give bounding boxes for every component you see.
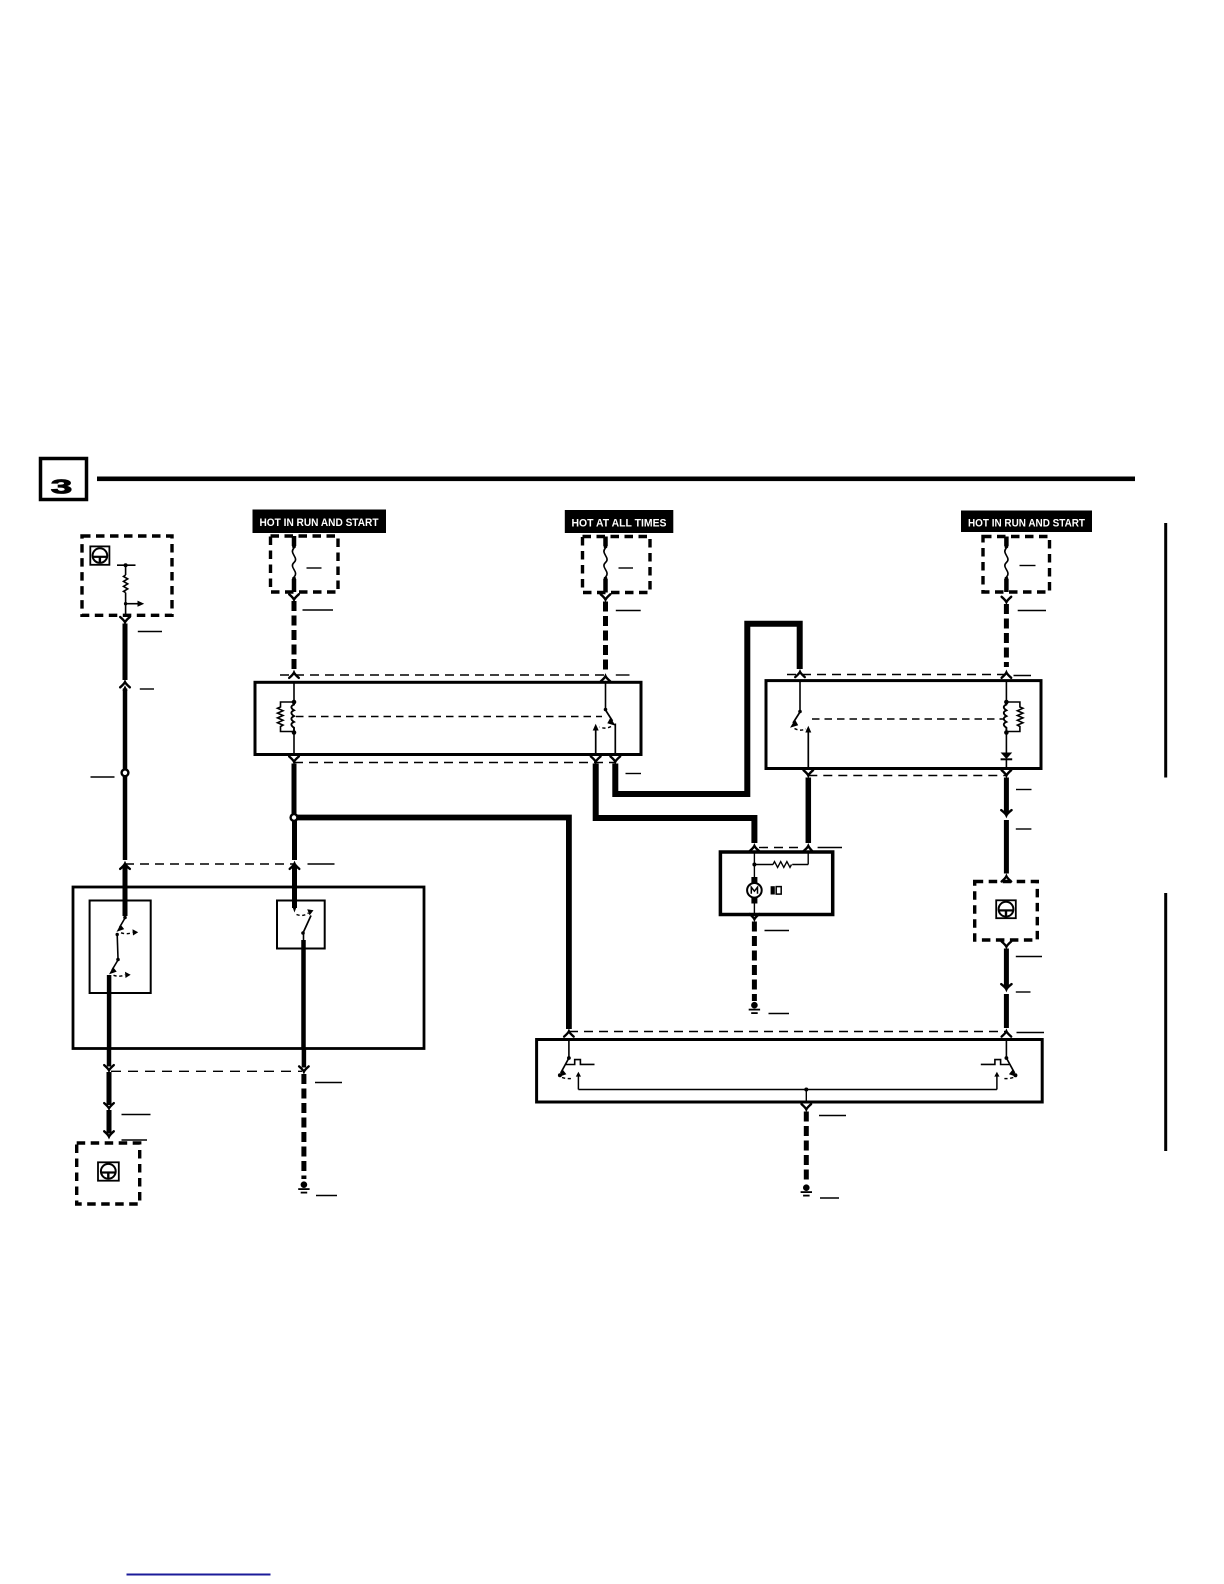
relay K1 coil with parallel resistor <box>278 682 297 754</box>
small switch contact and blade <box>292 907 313 935</box>
wire K2 switch to motor box <box>806 778 812 844</box>
splice label line <box>91 776 115 778</box>
connector K1 switch pin 87a <box>591 757 601 762</box>
boundary label line <box>308 863 335 865</box>
inline connector pair on left column <box>120 682 130 687</box>
wire left column lower <box>123 777 128 861</box>
wire label line below F3 <box>1018 610 1046 612</box>
steering column unit dashed box <box>975 882 1038 941</box>
svg-text:HOT IN RUN AND START: HOT IN RUN AND START <box>968 518 1085 530</box>
wire steering column unit down <box>1004 949 1009 988</box>
connector at big box boundary (right) <box>290 864 300 869</box>
steering wheel icon (washer unit) <box>98 1162 119 1180</box>
relay K1 bottom boundary dashed line <box>294 762 615 764</box>
connector label line <box>140 688 154 690</box>
header label HOT IN RUN AND START (right) <box>961 511 1092 533</box>
connector pair on right column (upper) <box>1001 810 1011 815</box>
relay K2 bottom boundary dashed line <box>808 775 1006 777</box>
wire K2 diode to connector (solid) <box>1004 778 1009 814</box>
column stalk switch box (tall) <box>90 901 151 994</box>
relay K1 internal dashed link <box>296 716 602 718</box>
wire small switch output <box>303 934 305 942</box>
left limit switch <box>558 1040 595 1090</box>
title rule <box>97 477 1135 482</box>
connector below F1 <box>289 594 299 599</box>
splice node ring on left column <box>122 769 129 776</box>
rheostat inside S1 <box>117 563 136 615</box>
wire S1 down (left column upper) <box>123 624 128 681</box>
ground G3 label line <box>820 1197 839 1199</box>
wire F2 to relay K1 switch (dashed) <box>603 602 608 674</box>
wire label line below S1 <box>138 631 162 633</box>
ground G3 (bottom box) <box>801 1184 812 1196</box>
bottom box boundary label line <box>1017 1032 1045 1034</box>
connector pair on right column (lower) <box>1001 984 1011 989</box>
steering wheel icon (right unit) <box>996 900 1016 918</box>
resistor inside motor unit <box>754 852 808 867</box>
K1 bottom boundary label line <box>626 773 642 775</box>
motor unit box <box>720 852 832 915</box>
motor box entry label line <box>818 847 842 849</box>
wire label line below F1 <box>303 609 334 611</box>
diode inside K2 <box>1001 753 1013 769</box>
ground wire label line <box>819 1115 846 1117</box>
K2 top boundary label line <box>1014 675 1032 677</box>
connector below bottom box <box>802 1104 812 1109</box>
connector pair label line <box>1016 991 1031 993</box>
fuse F2 dashed box <box>583 537 651 593</box>
washer pump unit dashed box <box>77 1143 140 1204</box>
wire F1 to relay K1 (dashed) <box>292 601 297 670</box>
connector at big box boundary (left) <box>120 864 130 869</box>
connector at K1 top pin 30 <box>601 676 611 681</box>
right margin bar upper <box>1164 523 1167 778</box>
connector at steering column unit top <box>1002 876 1012 881</box>
K1 top boundary label line <box>616 674 630 676</box>
connector below big box (left pin) <box>104 1065 114 1070</box>
page number box 3 <box>41 459 87 500</box>
wire B: K1 pin87a down to motor box <box>596 764 755 844</box>
connector below F3 <box>1002 597 1012 602</box>
wiper arrow inside S1 <box>124 601 144 607</box>
connector at bottom box right pin <box>1002 1031 1012 1036</box>
motor ground wire label line <box>765 930 790 932</box>
label line below steering column unit <box>1016 956 1042 958</box>
right limit switch <box>981 1040 1018 1090</box>
relay K1 box <box>255 682 641 754</box>
ground G1 (motor) <box>749 1002 760 1014</box>
connector below S1 <box>120 617 130 622</box>
footer link line <box>127 1574 271 1576</box>
connector at K2 top pin 30 <box>795 672 805 677</box>
wire tall switch output <box>107 975 112 1049</box>
wire stub below big box right <box>302 1049 307 1068</box>
pump icon inside motor unit <box>771 886 782 894</box>
relay K2 switch <box>790 681 811 769</box>
svg-text:HOT IN RUN AND START: HOT IN RUN AND START <box>260 517 379 529</box>
relay K2 internal dashed link <box>812 718 1004 720</box>
wire node down to big box <box>292 821 297 861</box>
connector at motor box right pin <box>804 846 813 851</box>
header label HOT AT ALL TIMES (middle) <box>565 510 674 533</box>
wire to ground (dashed) from wiper switch <box>301 1074 306 1179</box>
connector below F2 <box>601 594 611 599</box>
connector at bottom box left pin <box>564 1031 574 1036</box>
bottom box boundary dashed line <box>569 1031 1006 1033</box>
wire stalk switch down <box>107 1072 112 1105</box>
wiper relay switch box (small) <box>277 901 325 949</box>
ground G2 label line <box>316 1195 337 1197</box>
connector label line <box>122 1139 148 1141</box>
wire K1 coil to splice node <box>292 764 297 816</box>
steering wheel icon of S1 <box>90 546 109 564</box>
big box top boundary dashed line <box>125 863 295 865</box>
wire left column mid <box>123 689 128 770</box>
connector at K1 top pin 86 <box>289 673 299 678</box>
connector below big box (right pin) <box>299 1066 309 1071</box>
K2 bottom label line <box>1016 789 1032 791</box>
motor box boundary dashed line <box>759 847 804 849</box>
relay K2 box <box>766 681 1041 769</box>
wire to bottom box <box>1004 994 1009 1028</box>
svg-text:3: 3 <box>51 477 73 499</box>
wire into small switch <box>292 866 297 909</box>
connector K1 switch pin 87 <box>611 757 621 762</box>
sensor unit S1 dashed box (top left) <box>82 536 172 615</box>
right margin bar lower <box>1164 893 1167 1151</box>
connector K1 coil bottom pin <box>289 757 299 762</box>
connector at K2 coil top pin <box>1002 673 1012 678</box>
header label HOT IN RUN AND START (left) <box>253 510 387 534</box>
wire stub below big box left <box>107 1049 112 1067</box>
limit switch common rail <box>578 1088 997 1103</box>
tall switch stage 1 <box>116 916 139 937</box>
connector label line <box>122 1114 151 1116</box>
wire into tall switch <box>123 866 128 917</box>
fuse F3 dashed box <box>983 537 1050 593</box>
connector K2 switch output pin <box>804 770 814 775</box>
wire stalk to washer pump unit <box>107 1110 112 1134</box>
wire A: K1 pin87 up and over to relay K2 <box>615 624 799 794</box>
ground G2 (wiper switch) <box>298 1181 309 1193</box>
ground G1 label line <box>769 1013 790 1015</box>
fuse F3 value label line <box>1020 565 1036 567</box>
bottom limit switch box <box>537 1040 1043 1103</box>
label line right pin <box>315 1082 342 1084</box>
relay K2 coil with parallel resistor <box>1004 681 1023 753</box>
wire branch node to bottom box (L shape) <box>297 818 569 1030</box>
svg-text:HOT AT ALL TIMES: HOT AT ALL TIMES <box>572 518 667 530</box>
fuse F1 dashed box <box>271 536 339 592</box>
connector at washer pump unit top <box>104 1131 114 1136</box>
big box bottom boundary dashed line <box>111 1070 302 1072</box>
connector below steering column unit <box>1002 942 1012 947</box>
connector pair label line <box>1016 828 1032 830</box>
motor feed node <box>752 852 756 867</box>
motor ground wire (dashed) <box>752 922 757 1002</box>
connector below motor unit <box>750 914 760 919</box>
motor M1 symbol <box>747 865 762 915</box>
inline connector on stalk wire <box>104 1103 114 1108</box>
relay K2 top boundary dashed line <box>787 674 1006 676</box>
connector at motor box left pin <box>750 846 760 851</box>
connector K2 diode output pin <box>1002 770 1012 775</box>
tall switch stage 2 <box>109 935 131 979</box>
ground wire (dashed) from bottom box <box>804 1112 809 1183</box>
wire label line below F2 <box>616 610 641 612</box>
relay K1 top boundary dashed line <box>280 674 606 676</box>
splice node ring (branch to wiper switch) <box>291 814 298 821</box>
fuse F1 value label line <box>307 567 322 569</box>
wiper switch assembly box (big left box) <box>73 887 424 1049</box>
fuse F2 value label line <box>619 567 634 569</box>
relay K1 switch <box>593 682 616 754</box>
wire to steering column unit <box>1004 820 1009 874</box>
wire F3 to relay K2 coil (dashed) <box>1004 604 1009 667</box>
